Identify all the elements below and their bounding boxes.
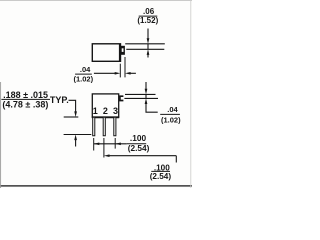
svg-text:2: 2: [103, 106, 108, 116]
dim .04 top extension line body edge: [119, 64, 121, 78]
front view body bottom thick edge: [92, 116, 119, 118]
svg-text:.06: .06: [143, 7, 155, 16]
dim .06 down arrow: [147, 29, 149, 41]
dim .04 right up arrow with leader: [146, 103, 158, 113]
dim .04 top fraction bar: [75, 73, 92, 75]
pin tip extension line: [64, 134, 92, 136]
dim .06 stem between lines: [147, 44, 149, 50]
TYP leader with down arrow: [69, 100, 76, 112]
pin 1: [93, 118, 95, 136]
front view adjustment screw slotted end: [120, 96, 124, 100]
dim .04 top left tail with arrow: [94, 72, 116, 74]
svg-text:.04: .04: [80, 65, 91, 74]
svg-text:(1.02): (1.02): [161, 116, 181, 125]
scan border left: [0, 82, 2, 188]
dim .188 up arrow: [75, 139, 77, 147]
svg-text:(4.78 ± .38): (4.78 ± .38): [2, 100, 48, 110]
dim .04 right fraction bar: [160, 113, 180, 115]
svg-text:.188 ± .015: .188 ± .015: [3, 90, 48, 100]
dim .04 right stem between lines: [145, 94, 147, 98]
dim .100 row1 fraction bar: [127, 143, 147, 145]
scan border bottom: [0, 185, 192, 187]
dim .188 fraction bar: [1, 98, 50, 100]
dim .04 right down arrow: [145, 82, 147, 91]
svg-text:.04: .04: [167, 105, 178, 114]
pin1 center extension line: [93, 138, 95, 151]
dim .100 row1 arrow at pin3 line: [115, 142, 121, 145]
dim .100 row1 dimension line: [94, 143, 127, 145]
dim .06 up arrow: [147, 53, 149, 58]
svg-text:(2.54): (2.54): [150, 172, 172, 181]
svg-text:(1.02): (1.02): [74, 74, 94, 83]
scan border right: [190, 0, 192, 188]
dim .04 top extension line tab edge: [124, 57, 126, 77]
dim .04 top right tail with arrow: [130, 72, 136, 74]
front view slot center line: [124, 97, 158, 99]
scan border top: [0, 0, 192, 2]
dim .100 row2 line with left arrow: [108, 155, 176, 157]
front view body: [92, 94, 118, 117]
pin3 center extension line: [114, 138, 116, 149]
dim .100 row2 leader drop: [175, 156, 177, 163]
svg-text:TYP.: TYP.: [50, 95, 69, 105]
svg-text:.100: .100: [130, 133, 147, 143]
svg-text:(2.54): (2.54): [128, 143, 150, 153]
svg-text:3: 3: [113, 106, 118, 116]
pin 2: [103, 118, 105, 136]
front view extension line top: [125, 93, 156, 95]
svg-text:1: 1: [93, 106, 98, 116]
top view adjustment screw tab: [121, 46, 125, 55]
top view slot line upper: [125, 43, 165, 45]
top view body right edge: [119, 44, 121, 62]
pin 3: [114, 118, 116, 136]
top view slot line lower: [126, 48, 164, 50]
dim .100 row2 fraction bar: [151, 170, 170, 172]
seating plane extension line: [64, 116, 79, 118]
pin2 center extension line: [103, 138, 105, 158]
dim .06 fraction bar: [139, 15, 158, 17]
dim .100 row1 arrow at pin1 line: [94, 142, 100, 145]
top view body: [92, 44, 120, 62]
svg-text:(1.52): (1.52): [137, 16, 158, 25]
